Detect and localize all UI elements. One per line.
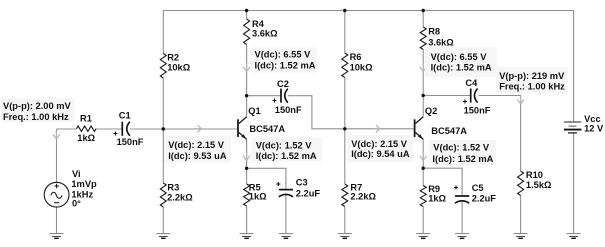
svg-text:150nF: 150nF: [464, 105, 491, 115]
capacitor C1: [114, 122, 130, 136]
wire collector Q2 to C4: [423, 95, 470, 97]
wire emitter Q2 to R9: [422, 139, 424, 234]
transistor Q2: [415, 117, 424, 139]
wire R4 branch collector Q1: [246, 11, 248, 117]
svg-text:1kΩ: 1kΩ: [77, 133, 95, 143]
ground C3: [279, 234, 293, 239]
capacitor C4: [463, 89, 478, 104]
ground R5: [240, 234, 254, 239]
svg-text:R2: R2: [167, 52, 179, 62]
svg-text:1.5kΩ: 1.5kΩ: [526, 180, 552, 190]
wire R7 branch: [344, 129, 346, 234]
svg-text:Freq.: 1.00 kHz: Freq.: 1.00 kHz: [499, 82, 565, 92]
svg-text:C5: C5: [472, 183, 484, 193]
wire C4 to output R10: [479, 96, 521, 234]
probe output: [517, 96, 524, 104]
resistor R8: [420, 27, 426, 50]
label box Q1 emitter measurement: [251, 138, 322, 162]
svg-text:1kΩ: 1kΩ: [249, 192, 267, 202]
svg-text:V(dc): 6.55 V: V(dc): 6.55 V: [431, 52, 488, 62]
wire input node to R1: [57, 128, 77, 130]
resistor R10: [518, 171, 524, 196]
svg-text:Vi: Vi: [72, 169, 81, 179]
svg-text:3.6kΩ: 3.6kΩ: [252, 28, 278, 38]
svg-text:1kΩ: 1kΩ: [428, 193, 446, 203]
node base Q2 divider: [343, 127, 346, 130]
ground R7: [338, 234, 352, 239]
resistor R9: [420, 186, 426, 207]
resistor R6: [342, 53, 348, 78]
resistor R7: [342, 184, 348, 207]
source Vi: [44, 182, 69, 207]
node emitter Q2: [422, 167, 425, 170]
transistor Q1: [238, 117, 247, 139]
svg-text:BC547A: BC547A: [431, 126, 467, 136]
wire emitter Q1 to R5: [246, 139, 248, 234]
svg-text:3.6kΩ: 3.6kΩ: [428, 37, 454, 47]
svg-text:2.2uF: 2.2uF: [296, 188, 321, 198]
svg-text:R3: R3: [167, 183, 179, 193]
wire emitter Q1 to C3: [247, 168, 286, 233]
node collector Q2: [422, 94, 425, 97]
ground battery: [567, 234, 581, 239]
svg-text:R8: R8: [428, 26, 440, 36]
wire source top: [56, 129, 58, 182]
ground source: [50, 234, 64, 239]
svg-text:R1: R1: [80, 113, 92, 123]
svg-text:V(dc): 6.55 V: V(dc): 6.55 V: [255, 50, 312, 60]
wire R6 branch: [344, 11, 346, 129]
resistor R3: [160, 183, 166, 207]
label box Q1 base measurement: [164, 136, 231, 163]
node rail R4: [245, 9, 248, 12]
probe base Q1: [194, 125, 202, 132]
wire collector Q1 to C2: [247, 95, 281, 97]
svg-text:R10: R10: [526, 170, 543, 180]
svg-text:150nF: 150nF: [117, 137, 144, 147]
svg-text:0°: 0°: [72, 199, 81, 209]
ground C5: [455, 234, 469, 239]
svg-text:V(dc): 1.52 V: V(dc): 1.52 V: [433, 143, 490, 153]
svg-text:C1: C1: [119, 110, 131, 120]
wire C2 to Q2 base: [288, 96, 414, 129]
node collector Q1: [245, 94, 248, 97]
resistor R2: [160, 54, 166, 79]
svg-text:2.2uF: 2.2uF: [472, 194, 497, 204]
node emitter Q1: [245, 167, 248, 170]
label box Q2 emitter measurement: [429, 140, 496, 165]
wire R3 branch: [162, 129, 164, 234]
svg-text:V(dc): 2.15 V: V(dc): 2.15 V: [168, 140, 225, 150]
svg-text:BC547A: BC547A: [249, 124, 285, 134]
svg-text:I(dc): 1.52 mA: I(dc): 1.52 mA: [431, 62, 492, 72]
wire C1 to Q1 base: [130, 128, 237, 130]
wire R2 branch: [162, 11, 164, 130]
svg-text:V(dc): 1.52 V: V(dc): 1.52 V: [256, 140, 313, 150]
wire source bottom: [56, 207, 58, 234]
resistor R1: [77, 126, 97, 131]
svg-text:I(dc): 9.53 uA: I(dc): 9.53 uA: [168, 151, 227, 161]
probe emitter Q2: [420, 152, 427, 161]
resistor R5: [244, 184, 250, 206]
svg-text:R6: R6: [350, 52, 362, 62]
wire battery branch: [573, 11, 575, 234]
svg-text:C4: C4: [465, 78, 478, 88]
svg-text:V(p-p): 2.00 mV: V(p-p): 2.00 mV: [3, 101, 71, 111]
wire R1 to C1: [96, 128, 122, 130]
svg-text:Q2: Q2: [425, 106, 437, 116]
svg-text:10kΩ: 10kΩ: [167, 63, 191, 73]
svg-text:C2: C2: [277, 79, 289, 89]
probe base Q2: [372, 125, 380, 132]
node rail R8: [422, 9, 425, 12]
svg-text:10kΩ: 10kΩ: [350, 62, 374, 72]
probe collector Q2: [420, 63, 427, 72]
capacitor C5: [454, 186, 469, 204]
label box output measurement: [496, 67, 568, 93]
wire top Vcc rail: [163, 10, 573, 12]
svg-text:150nF: 150nF: [275, 105, 302, 115]
svg-text:V(dc): 2.15 V: V(dc): 2.15 V: [351, 139, 408, 149]
battery Vcc: [564, 122, 582, 133]
svg-text:V(p-p): 219 mV: V(p-p): 219 mV: [499, 71, 565, 81]
svg-text:2.2kΩ: 2.2kΩ: [350, 191, 376, 201]
svg-text:I(dc): 1.52 mA: I(dc): 1.52 mA: [255, 60, 316, 70]
wire R8 branch collector Q2: [422, 11, 424, 117]
svg-text:I(dc): 9.54 uA: I(dc): 9.54 uA: [351, 149, 410, 159]
probe collector Q1: [243, 63, 250, 72]
label box R8 measurement: [425, 47, 497, 77]
svg-text:I(dc): 1.52 mA: I(dc): 1.52 mA: [432, 154, 493, 164]
resistor R4: [244, 19, 250, 45]
label box R4 measurement: [251, 48, 317, 73]
capacitor C2: [273, 89, 288, 103]
ground R9: [416, 234, 430, 239]
wire emitter Q2 to C5: [423, 168, 462, 233]
svg-text:Freq.: 1.00 kHz: Freq.: 1.00 kHz: [3, 112, 69, 122]
svg-text:1mVp: 1mVp: [71, 179, 97, 189]
node input junction: [162, 127, 165, 130]
probe emitter Q1: [243, 152, 250, 161]
svg-text:Q1: Q1: [248, 106, 260, 116]
svg-text:2.2kΩ: 2.2kΩ: [167, 193, 193, 203]
probe input: [53, 131, 60, 139]
label box input Vpp: [1, 99, 74, 123]
svg-text:I(dc): 1.52 mA: I(dc): 1.52 mA: [256, 151, 317, 161]
capacitor C3: [276, 182, 293, 197]
ground R10: [514, 234, 528, 239]
node rail R6: [343, 9, 346, 12]
label box Q2 base measurement: [347, 135, 412, 162]
svg-text:12 V: 12 V: [584, 123, 604, 133]
svg-text:C3: C3: [296, 178, 308, 188]
ground R3: [156, 234, 170, 239]
